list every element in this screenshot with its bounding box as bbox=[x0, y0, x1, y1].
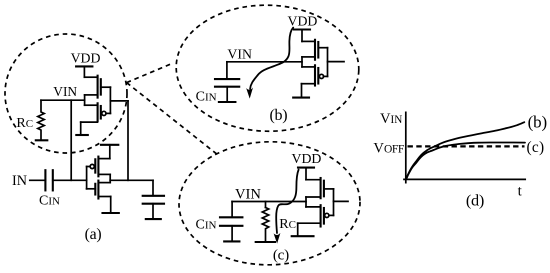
transistor M6 drain lead bbox=[298, 222, 321, 224]
svg-text:VDD: VDD bbox=[288, 13, 318, 28]
wire PMOS drain to NMOS drain bbox=[109, 174, 111, 182]
capacitor CIN top plate (b) bbox=[215, 78, 239, 80]
capacitor CIN bottom plate (c) bbox=[220, 225, 242, 227]
wire VDD to M1 source bbox=[83, 66, 85, 77]
ground bar CIN (b) bbox=[219, 101, 236, 103]
svg-text:(c): (c) bbox=[527, 139, 545, 156]
wire VIN node down to input net bbox=[70, 100, 72, 180]
wire M6 to ground (c) bbox=[297, 223, 299, 235]
wire input net bbox=[53, 179, 87, 181]
arrowhead charging current (b) bbox=[246, 88, 253, 99]
transistor M4 source lead bbox=[302, 66, 315, 68]
transistor M3 gate lead bbox=[318, 47, 327, 49]
wire VIN down to CIN (b) bbox=[226, 62, 228, 79]
wire VDD to M5 source bbox=[305, 168, 307, 180]
wire joining M1 M2 gates bbox=[109, 87, 111, 113]
transistor M1 source lead bbox=[84, 76, 97, 78]
charging current arrow (c) bbox=[276, 170, 298, 233]
wire M2 to ground bbox=[80, 122, 82, 134]
wire M3 drain to VIN node bbox=[301, 57, 303, 67]
wire inverter input gates bbox=[86, 167, 88, 189]
transistor M4 channel bbox=[314, 65, 316, 85]
resistor RC (a) bbox=[38, 100, 44, 139]
wire VIN (c) bbox=[232, 201, 306, 203]
svg-text:CIN: CIN bbox=[196, 90, 217, 105]
svg-text:(b): (b) bbox=[270, 107, 288, 124]
transistor M5 drain lead bbox=[306, 196, 321, 198]
VDD rail bar (a) bbox=[76, 65, 92, 67]
transistor M2 gate plate bbox=[100, 106, 102, 119]
transistor M2 channel bbox=[97, 103, 99, 121]
wire M1 drain to VIN node bbox=[84, 95, 86, 105]
ground bar M2 bbox=[76, 134, 88, 136]
transistor M3 drain lead bbox=[302, 56, 315, 58]
transistor M3 source lead bbox=[302, 40, 315, 42]
inverter PMOS drain lead bbox=[98, 173, 110, 175]
transistor M1 gate plate bbox=[100, 79, 102, 94]
transistor M2 source lead bbox=[85, 104, 98, 106]
ground bar RC (c) bbox=[256, 241, 275, 243]
ground bar M4 (b) bbox=[293, 97, 309, 99]
VDD rail bar (b) bbox=[294, 28, 310, 30]
x axis bbox=[404, 178, 525, 180]
feedback wire from inverter output bbox=[127, 101, 129, 180]
transistor M4 gate bubble bbox=[319, 74, 323, 78]
ground bar M6 (c) bbox=[292, 235, 314, 237]
capacitor CIN top plate (c) bbox=[220, 216, 242, 218]
capacitor CIN plate right (a) bbox=[52, 170, 54, 190]
inverter NMOS drain lead bbox=[98, 182, 110, 184]
svg-text:VDD: VDD bbox=[71, 50, 101, 65]
inverter PMOS channel bbox=[97, 157, 99, 177]
ground bar CIN (c) bbox=[224, 240, 239, 242]
wire load capacitor to ground bbox=[152, 204, 154, 219]
dashed ellipse (b) bbox=[175, 3, 360, 133]
transistor M6 gate plate bbox=[323, 208, 325, 224]
transistor M2 drain lead bbox=[81, 121, 98, 123]
transistor M5 gate plate bbox=[323, 181, 325, 197]
svg-text:VIN: VIN bbox=[53, 84, 77, 99]
svg-text:VIN: VIN bbox=[235, 186, 261, 202]
transistor M2 gate bubble bbox=[102, 111, 106, 115]
svg-text:VIN: VIN bbox=[227, 47, 252, 62]
ground bar NMOS bbox=[103, 212, 119, 214]
wire gates to feedback bbox=[110, 100, 128, 102]
svg-text:(a): (a) bbox=[85, 226, 102, 243]
ground bar RC (a) bbox=[36, 139, 48, 141]
dashed ellipse (c) bbox=[178, 140, 361, 266]
wire VDD to M3 source bbox=[301, 30, 303, 42]
load capacitor bottom plate bbox=[143, 203, 164, 205]
transistor M1 gate lead bbox=[101, 86, 111, 88]
wire VIN bbox=[41, 99, 85, 101]
transistor M3 channel bbox=[314, 40, 316, 60]
VDD stub bar inverter bbox=[101, 144, 118, 146]
svg-text:RC: RC bbox=[16, 116, 33, 131]
wire VIN down to CIN (c) bbox=[231, 202, 233, 218]
transistor M5 gate lead bbox=[324, 188, 334, 190]
svg-text:(b): (b) bbox=[528, 112, 548, 131]
svg-text:CIN: CIN bbox=[196, 217, 217, 232]
response curve (b) bbox=[406, 122, 524, 179]
inverter PMOS gate lead bbox=[87, 166, 91, 168]
transistor M4 gate plate bbox=[317, 68, 319, 84]
resistor RC (c) bbox=[262, 208, 268, 242]
transistor M2 gate lead bbox=[106, 112, 110, 114]
wire output to load capacitor bbox=[152, 180, 154, 195]
wire VDD stub to PMOS bbox=[109, 145, 111, 159]
transistor M4 drain lead bbox=[302, 83, 316, 85]
wire M5 drain to VIN node bbox=[305, 197, 307, 207]
ground bar load capacitor bbox=[146, 218, 161, 220]
inverter NMOS source lead bbox=[98, 196, 110, 198]
svg-text:VOFF: VOFF bbox=[373, 140, 403, 156]
wire M4 to ground (b) bbox=[301, 84, 303, 98]
zoom guide line to (c) bbox=[127, 83, 217, 155]
stub wire to rest of circuit (b) bbox=[328, 61, 345, 63]
response curve (c) bbox=[406, 143, 525, 180]
inverter PMOS gate bubble bbox=[90, 164, 94, 168]
output wire bbox=[110, 179, 153, 181]
svg-text:CIN: CIN bbox=[39, 194, 60, 209]
transistor M6 gate bubble bbox=[325, 213, 329, 217]
zoom guide line to (b) bbox=[127, 63, 173, 82]
transistor M1 channel bbox=[97, 76, 99, 98]
transistor M3 gate plate bbox=[317, 42, 319, 58]
transistor M6 gate lead bbox=[329, 214, 334, 216]
wire VIN (b) bbox=[227, 61, 302, 63]
capacitor CIN bottom plate (b) bbox=[215, 86, 239, 88]
wire NMOS source to ground bbox=[110, 197, 112, 213]
VDD rail bar (c) bbox=[298, 167, 314, 169]
transistor M5 source lead bbox=[306, 179, 321, 181]
inverter NMOS gate lead bbox=[87, 188, 96, 190]
inverter NMOS channel bbox=[97, 181, 99, 199]
dashed highlight circle around bias devices bbox=[5, 34, 127, 153]
svg-text:RC: RC bbox=[279, 217, 296, 232]
charging current arrow (b) bbox=[250, 28, 293, 89]
svg-text:VDD: VDD bbox=[292, 151, 322, 166]
transistor M1 drain lead bbox=[85, 94, 98, 96]
inverter PMOS gate plate bbox=[94, 159, 96, 172]
wire CIN to ground (b) bbox=[226, 87, 228, 102]
svg-text:VIN: VIN bbox=[380, 111, 402, 127]
transistor M4 gate lead bbox=[323, 75, 327, 77]
capacitor CIN plate left (a) bbox=[44, 170, 46, 190]
transistor M6 channel bbox=[320, 205, 322, 226]
transistor M6 source lead bbox=[306, 206, 321, 208]
transistor M5 channel bbox=[320, 178, 322, 198]
VOFF dashed level line bbox=[408, 145, 525, 147]
wire CIN to ground (c) bbox=[231, 226, 233, 241]
inverter PMOS source lead bbox=[98, 158, 109, 160]
wire IN to CIN bbox=[30, 179, 46, 181]
wire joining M3 M4 gates bbox=[327, 48, 329, 77]
arrowhead charging current (c) bbox=[274, 233, 281, 244]
inverter NMOS gate plate bbox=[94, 184, 96, 195]
svg-text:IN: IN bbox=[12, 173, 27, 189]
load capacitor top plate bbox=[143, 195, 164, 197]
stub wire to rest of circuit (c) bbox=[334, 200, 349, 202]
svg-text:(d): (d) bbox=[466, 191, 484, 210]
y axis bbox=[405, 112, 407, 182]
svg-text:(c): (c) bbox=[273, 247, 289, 264]
wire VIN to resistor RC (c) bbox=[265, 202, 267, 208]
wire joining M5 M6 gates bbox=[333, 189, 335, 216]
